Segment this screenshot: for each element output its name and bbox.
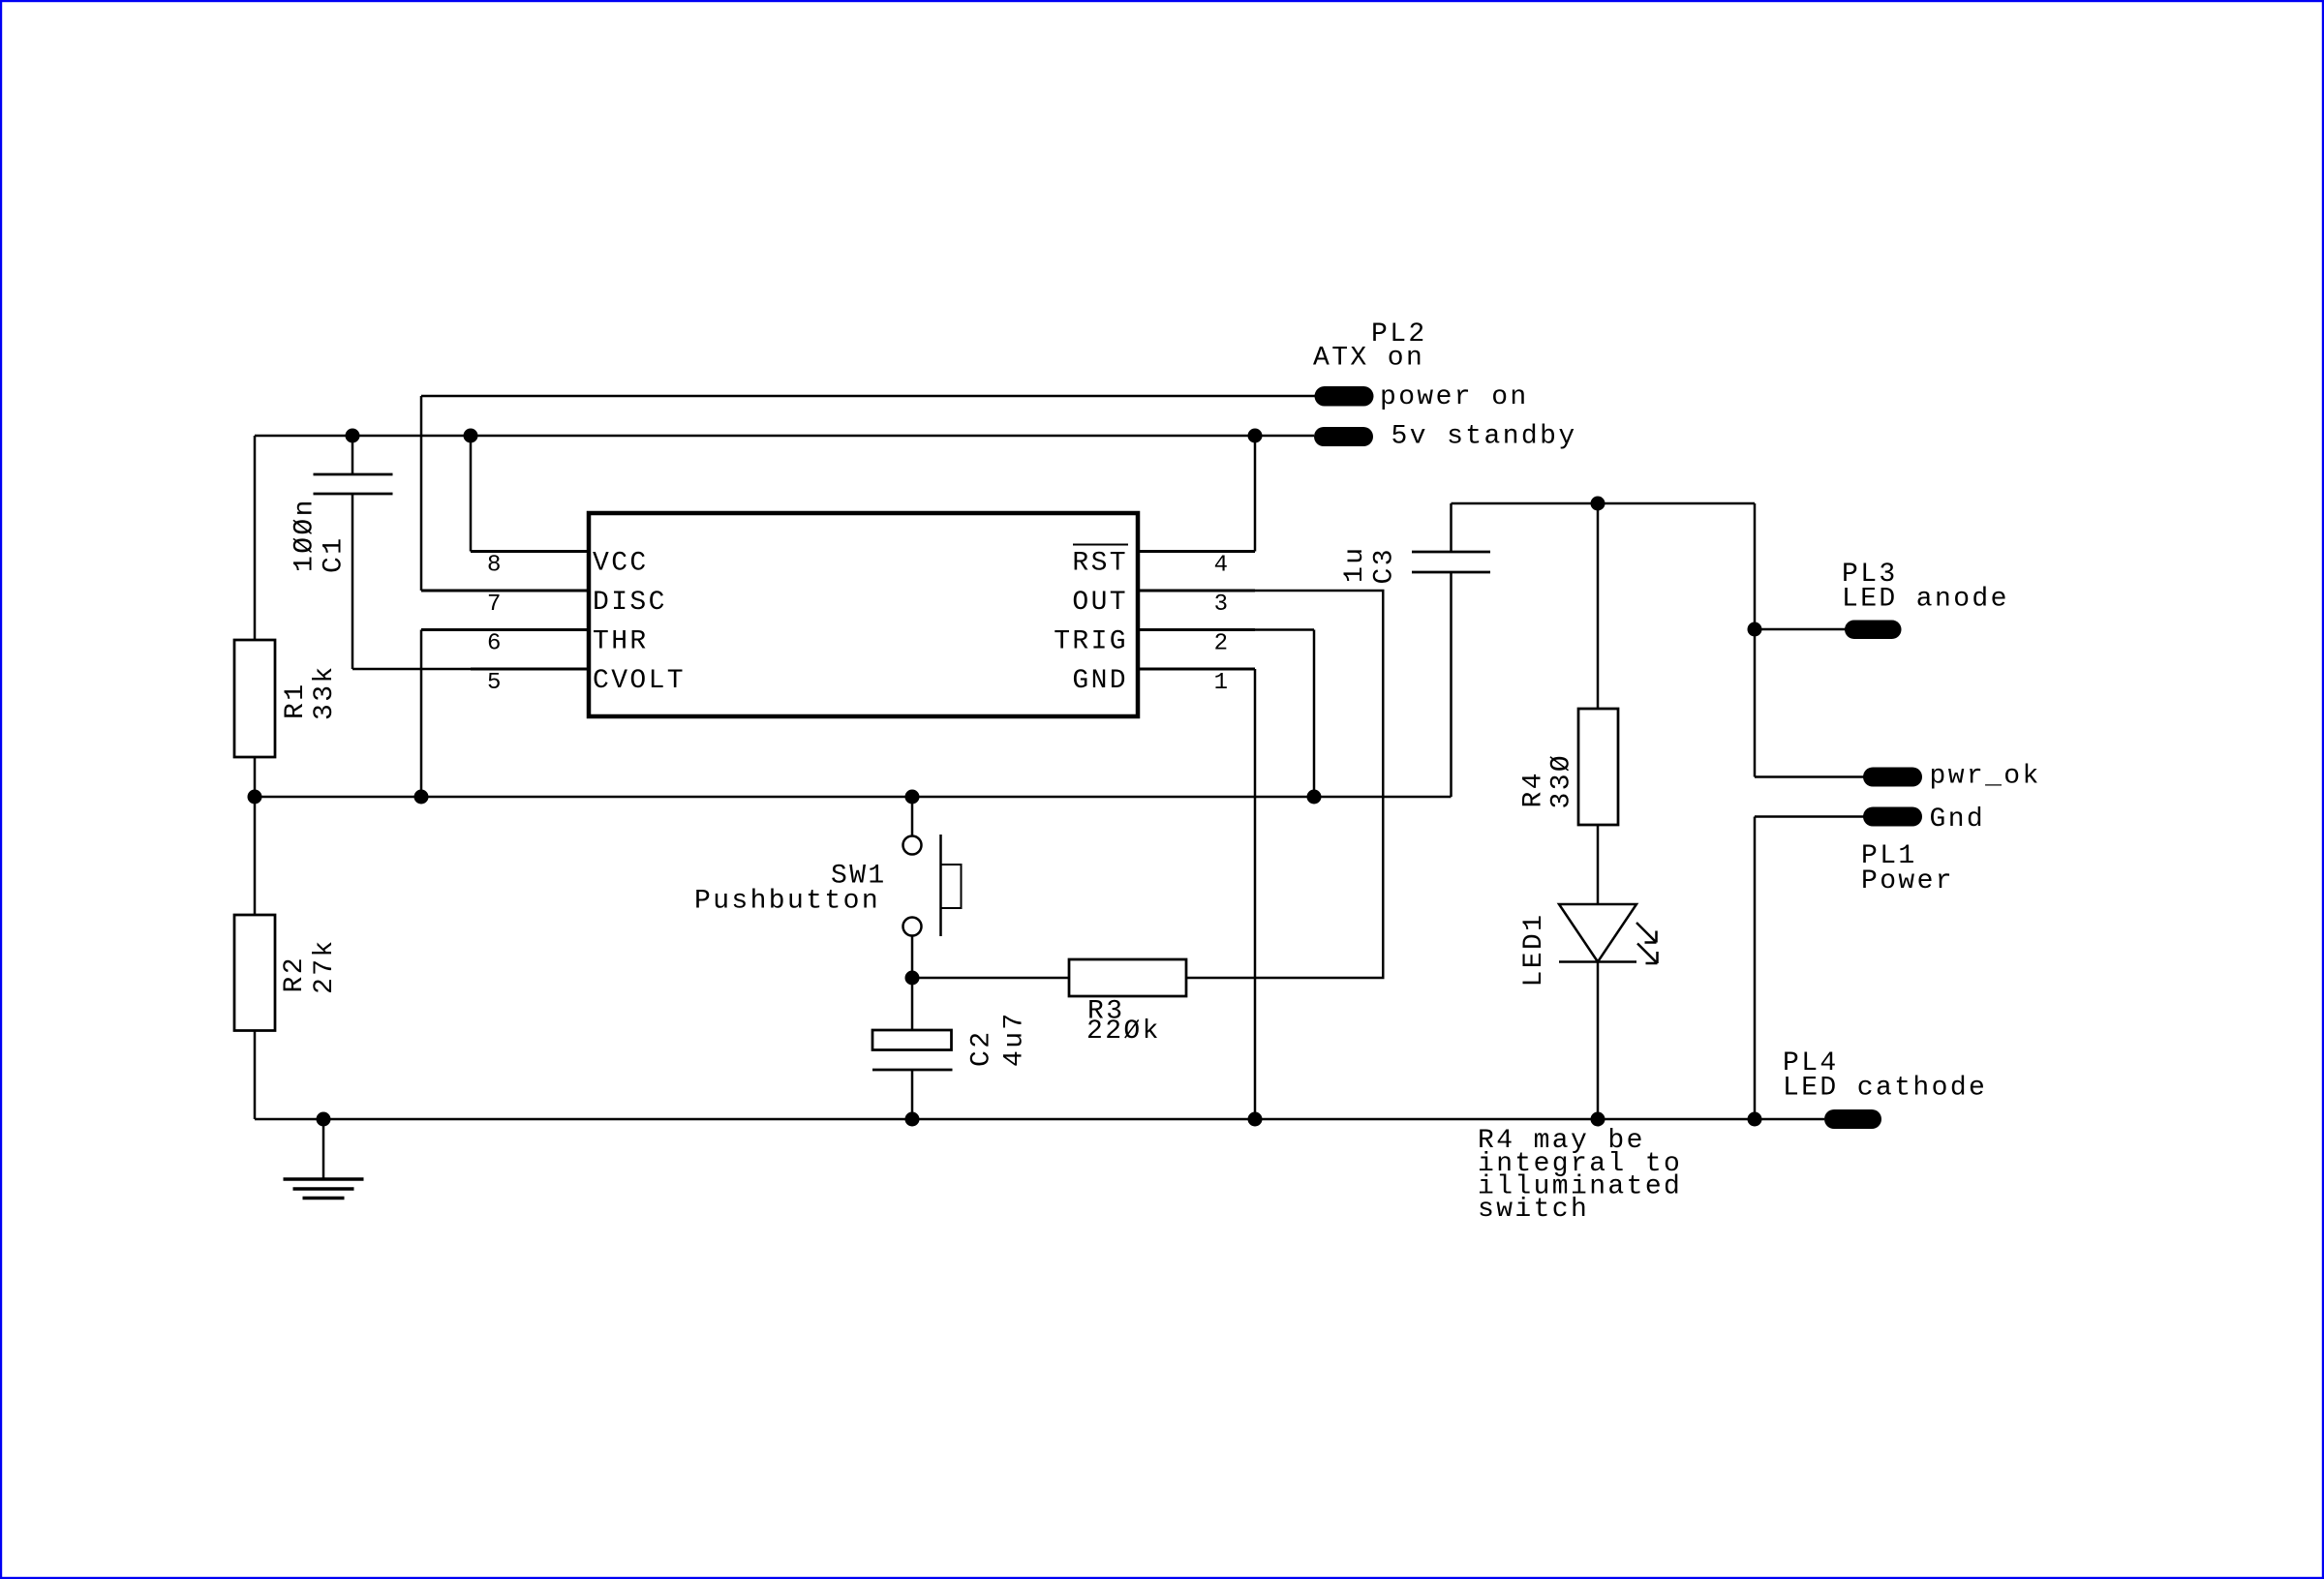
svg-text:2: 2 <box>1214 631 1228 657</box>
svg-text:5v standby: 5v standby <box>1391 422 1577 452</box>
svg-text:4u7: 4u7 <box>1000 1011 1030 1067</box>
wire pwr_ok top horizontal <box>1452 502 1756 505</box>
svg-text:C1: C1 <box>320 536 350 573</box>
svg-text:3: 3 <box>1214 592 1228 618</box>
pin 7 DISC stub <box>421 590 589 592</box>
wire TRIG extension <box>1255 628 1314 631</box>
wire SW1 to R3 <box>912 977 1069 980</box>
node LED anode tap <box>1748 622 1762 637</box>
ground symbol <box>284 1119 364 1199</box>
resistor R3 <box>1069 959 1186 996</box>
svg-text:power on: power on <box>1380 382 1529 412</box>
pin 5 CVOLT stub <box>471 668 589 671</box>
wire C1 vertical <box>352 436 354 474</box>
wire LED anode horizontal <box>1755 628 1846 631</box>
wire PL3 pwr_ok vertical <box>1754 503 1757 777</box>
wire OUT extension <box>1255 590 1385 592</box>
pin PL4 LED cathode pad <box>1824 1109 1881 1129</box>
svg-text:6: 6 <box>487 631 501 657</box>
node LED bottom <box>1591 1112 1605 1127</box>
wire C2 leads <box>911 978 914 1030</box>
svg-text:4: 4 <box>1214 553 1228 579</box>
svg-text:5: 5 <box>487 670 501 696</box>
svg-text:33k: 33k <box>310 664 340 720</box>
node Gnd pill bottom <box>1748 1112 1762 1127</box>
resistor R2 <box>234 915 275 1031</box>
wire R3 to OUT drop <box>1186 977 1385 980</box>
svg-text:Gnd: Gnd <box>1930 805 1986 835</box>
svg-text:1ØØn: 1ØØn <box>290 498 321 572</box>
pin 6 THR stub <box>421 628 589 631</box>
wire Gnd pill horizontal <box>1755 815 1864 818</box>
wire R4 LED column <box>1597 503 1600 709</box>
wire GND pin vertical <box>1254 669 1257 1119</box>
svg-text:8: 8 <box>487 553 501 579</box>
node GND pin bottom <box>1248 1112 1263 1127</box>
svg-text:ATX on: ATX on <box>1313 344 1424 374</box>
svg-text:CVOLT: CVOLT <box>593 666 686 696</box>
node VCC <box>464 429 478 443</box>
svg-text:TRIG: TRIG <box>1054 627 1128 657</box>
capacitor C3 <box>1412 552 1490 572</box>
wire SW1 verticals <box>911 797 914 835</box>
wire TRIG vertical <box>1313 630 1316 798</box>
node ground tap <box>317 1112 331 1127</box>
diode LED1 <box>1559 904 1658 963</box>
svg-text:LED cathode: LED cathode <box>1783 1074 1987 1104</box>
wire left rail vertical <box>254 436 257 640</box>
svg-text:LED anode: LED anode <box>1842 585 2009 615</box>
switch SW1 pushbutton <box>903 835 962 936</box>
pin 4 RST stub <box>1138 550 1255 553</box>
wire THR vertical <box>420 630 423 798</box>
pin 2 TRIG stub <box>1138 628 1255 631</box>
svg-text:Power: Power <box>1861 866 1954 896</box>
svg-text:THR: THR <box>593 627 649 657</box>
wire pwr_ok pill horizontal <box>1755 775 1864 778</box>
connector pads PL2 <box>1314 386 1922 1129</box>
node THR bus <box>414 790 429 805</box>
resistor R4 <box>1578 709 1618 825</box>
svg-text:33Ø: 33Ø <box>1547 753 1577 809</box>
node SW1 bus <box>905 790 920 805</box>
svg-text:Pushbutton: Pushbutton <box>694 887 880 917</box>
node SW1 C2 R3 <box>905 971 920 986</box>
wire DISC vertical <box>420 396 423 591</box>
svg-text:1u: 1u <box>1340 546 1370 583</box>
svg-text:switch: switch <box>1478 1195 1589 1225</box>
wire CVOLT thin <box>352 668 474 671</box>
svg-text:R2: R2 <box>280 956 310 992</box>
pin pwr_ok pad <box>1863 768 1922 787</box>
capacitor C2 polarized <box>872 1030 953 1070</box>
wire ground bottom horizontal <box>255 1118 1824 1121</box>
svg-text:22Øk: 22Øk <box>1086 1017 1161 1047</box>
svg-text:LED1: LED1 <box>1519 913 1549 987</box>
wire RST vertical <box>1254 436 1257 552</box>
node TRIG bus <box>1307 790 1322 805</box>
pin 3 OUT stub <box>1138 590 1255 592</box>
svg-text:C3: C3 <box>1370 547 1400 584</box>
svg-text:C2: C2 <box>967 1030 997 1067</box>
pin power on pad <box>1315 386 1374 407</box>
svg-text:R4: R4 <box>1519 771 1549 807</box>
svg-text:7: 7 <box>487 592 501 618</box>
pin Gnd pad <box>1863 807 1922 827</box>
wire VCC vertical <box>470 436 473 552</box>
node C1 top <box>346 429 360 443</box>
node R1 R2 bus <box>248 790 262 805</box>
svg-text:GND: GND <box>1072 666 1128 696</box>
wire C3 verticals <box>1450 503 1452 552</box>
wire Gnd vertical <box>1754 817 1757 1120</box>
svg-text:R1: R1 <box>281 683 311 719</box>
ic U1 555 box <box>589 513 1138 716</box>
node R4 top <box>1591 497 1605 511</box>
capacitor C1 <box>314 474 393 494</box>
svg-text:1: 1 <box>1214 670 1228 696</box>
pin 5v standby pad <box>1314 427 1373 446</box>
resistor R1 <box>234 640 275 757</box>
wire 5v standby horizontal <box>255 435 1314 438</box>
node RST standby <box>1248 429 1263 443</box>
svg-text:OUT: OUT <box>1072 588 1128 618</box>
svg-text:27k: 27k <box>310 938 340 994</box>
wire OUT vertical <box>1382 591 1385 978</box>
svg-text:pwr_ok: pwr_ok <box>1930 762 2041 792</box>
pin 1 GND stub <box>1138 668 1255 671</box>
node C2 bottom <box>905 1112 920 1127</box>
wire power on horizontal <box>421 395 1315 398</box>
svg-text:DISC: DISC <box>593 588 667 618</box>
svg-text:RST: RST <box>1072 549 1128 579</box>
svg-text:VCC: VCC <box>593 549 649 579</box>
pin 8 VCC stub <box>471 550 589 553</box>
pin PL3 LED anode pad <box>1845 621 1902 640</box>
wire trigger bus horizontal <box>255 796 1452 799</box>
